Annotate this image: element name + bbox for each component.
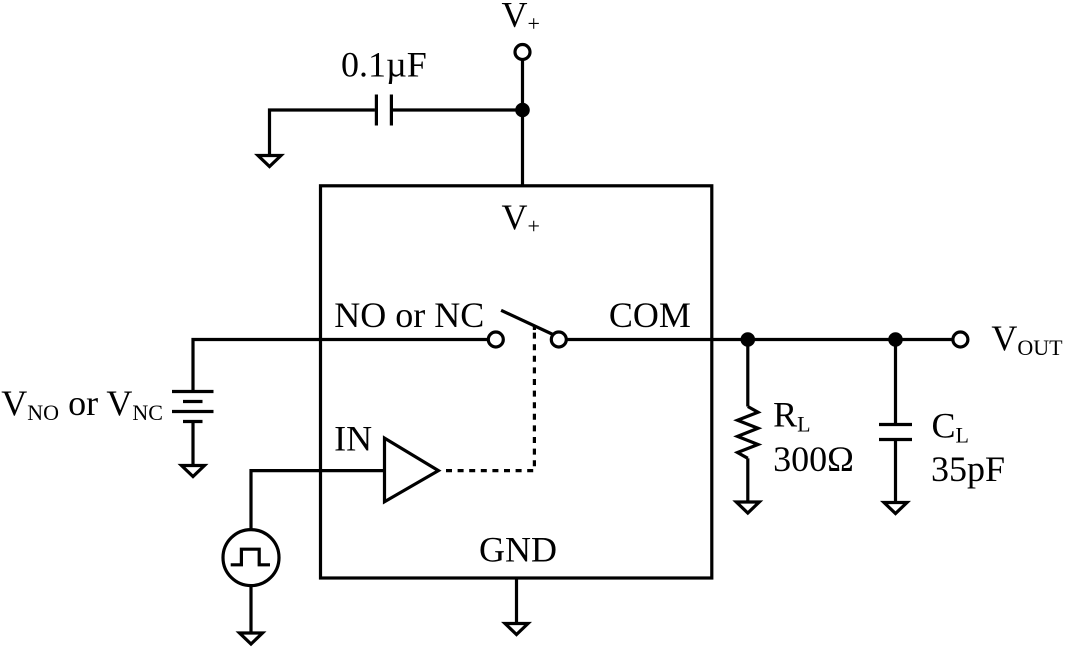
wire pulse source to ground <box>249 586 252 632</box>
svg-text:0.1µF: 0.1µF <box>341 45 427 85</box>
terminal VOUT <box>953 332 968 347</box>
junction dot RL node <box>741 332 756 347</box>
terminal V+ <box>515 45 530 60</box>
svg-text:NO or NC: NO or NC <box>334 295 484 335</box>
wire CL node down to capacitor <box>894 340 897 424</box>
svg-text:35pF: 35pF <box>931 449 1005 489</box>
GND pin wire <box>515 578 518 623</box>
ground (pulse source) <box>240 633 263 644</box>
wire battery bottom to ground <box>191 423 194 465</box>
battery V_NO / V_NC plates <box>172 392 214 422</box>
ground (top-left, bypass cap) <box>258 156 281 167</box>
ground (RL) <box>736 502 759 513</box>
capacitor C1 0.1uF plates <box>376 95 391 126</box>
wire V+ node to capacitor right plate <box>393 108 523 111</box>
wire RL node down to resistor <box>746 340 749 407</box>
pulse waveform glyph <box>231 549 270 565</box>
ground (GND pin) <box>505 624 528 635</box>
IC box U1 <box>321 186 712 578</box>
junction dot V+ node <box>515 103 530 118</box>
wire capacitor left plate to corner <box>270 110 375 155</box>
junction dot CL node <box>888 332 903 347</box>
capacitor CL plates <box>879 425 912 440</box>
resistor RL zigzag <box>738 407 759 459</box>
switch pole circle NO/NC <box>488 332 503 347</box>
wire battery top to switch NO/NC pin <box>193 340 487 391</box>
wire V+ terminal to box top <box>521 61 524 187</box>
switch pole circle COM <box>551 332 566 347</box>
wire COM to VOUT terminal <box>567 338 952 341</box>
dotted control line top dash at lever <box>533 327 536 331</box>
buffer driver triangle <box>385 438 439 502</box>
wire resistor to ground <box>746 458 749 501</box>
svg-text:300Ω: 300Ω <box>773 439 854 479</box>
switch lever <box>501 310 553 334</box>
ground (CL) <box>884 503 907 514</box>
pulse source V1 circle <box>223 530 279 586</box>
svg-text:IN: IN <box>334 418 372 458</box>
svg-text:GND: GND <box>479 530 557 570</box>
dotted control line from buffer to switch <box>446 327 534 471</box>
wire pulse source to buffer input <box>251 471 385 530</box>
ground (battery) <box>182 466 205 477</box>
wire CL capacitor to ground <box>894 441 897 502</box>
svg-text:COM: COM <box>609 295 691 335</box>
